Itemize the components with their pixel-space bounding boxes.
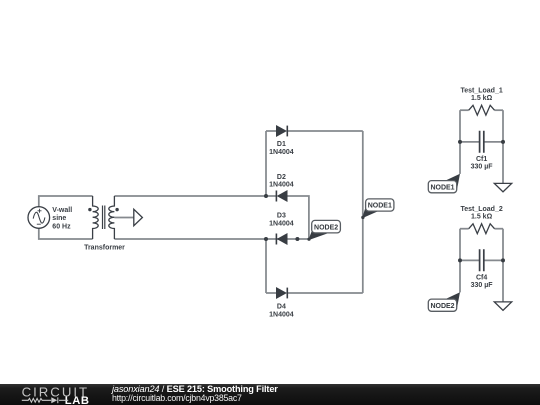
svg-text:330 µF: 330 µF — [471, 163, 494, 170]
svg-text:NODE2: NODE2 — [430, 303, 454, 310]
svg-text:1N4004: 1N4004 — [269, 182, 294, 189]
svg-text:LAB: LAB — [65, 395, 90, 405]
svg-text:330 µF: 330 µF — [471, 282, 494, 289]
svg-text:NODE1: NODE1 — [430, 184, 454, 191]
svg-text:Test_Load_2: Test_Load_2 — [460, 206, 502, 213]
svg-text:1N4004: 1N4004 — [269, 149, 294, 156]
svg-text:D3: D3 — [277, 213, 286, 220]
svg-text:60 Hz: 60 Hz — [52, 224, 71, 231]
svg-text:1N4004: 1N4004 — [269, 312, 294, 319]
svg-text:NODE1: NODE1 — [368, 203, 392, 210]
svg-text:D1: D1 — [277, 141, 286, 148]
svg-text:Cf4: Cf4 — [476, 274, 487, 281]
svg-text:Transformer: Transformer — [84, 244, 125, 251]
svg-text:D2: D2 — [277, 174, 286, 181]
svg-text:Cf1: Cf1 — [476, 156, 487, 163]
svg-text:sine: sine — [52, 215, 66, 222]
svg-text:NODE2: NODE2 — [314, 224, 338, 231]
svg-text:1N4004: 1N4004 — [269, 220, 294, 227]
svg-text:1.5 kΩ: 1.5 kΩ — [471, 213, 493, 220]
svg-text:D4: D4 — [277, 304, 286, 311]
svg-text:Test_Load_1: Test_Load_1 — [460, 87, 502, 94]
svg-text:1.5 kΩ: 1.5 kΩ — [471, 95, 493, 102]
svg-text:V-wall: V-wall — [52, 207, 72, 214]
svg-text:http://circuitlab.com/cjbn4vp3: http://circuitlab.com/cjbn4vp385ac7 — [112, 393, 242, 403]
